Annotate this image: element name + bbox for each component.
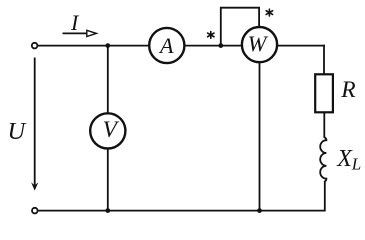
svg-text:U: U <box>8 118 28 145</box>
svg-text:A: A <box>158 33 174 58</box>
svg-text:X: X <box>336 146 353 172</box>
svg-text:L: L <box>351 155 361 174</box>
svg-text:W: W <box>248 31 269 56</box>
svg-text:R: R <box>340 77 355 103</box>
